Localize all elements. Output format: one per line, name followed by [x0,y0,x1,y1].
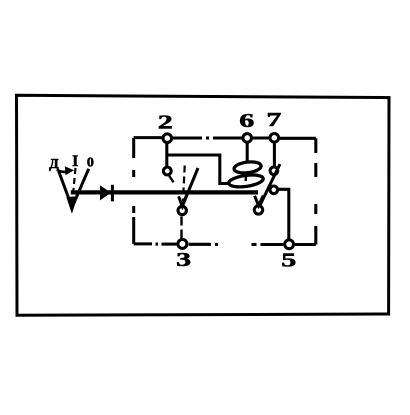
contact circle left fixed [163,167,171,175]
svg-text:6: 6 [239,110,254,132]
lever shaft stop bar [111,185,114,202]
terminal 2 [163,134,172,143]
cam center tick [245,176,247,181]
dashed travel line left switch [183,166,185,202]
contact circle right upper [270,167,278,175]
terminal 6 [243,134,252,143]
contact circle left movable [178,206,186,214]
contact circle right middle [270,186,278,194]
wire 6 to 7 [253,136,269,139]
contact circle right lower movable [254,206,262,214]
wire branch jog from node to cam [167,155,230,184]
wire 7 to right corner [280,137,316,140]
rotation arc arrow [57,170,67,172]
lever shaft [71,190,258,194]
lever position line I dashed [73,168,76,200]
arrowhead right switch [255,196,264,206]
lever position line 0 [73,169,88,205]
lever down arrowhead [68,198,76,211]
lever position line Д [59,172,71,205]
svg-text:5: 5 [281,250,296,272]
wire terminal 2 down to fixed contact [165,143,168,166]
wire chain 2 to 6 [173,136,242,139]
dashed wire movable to terminal 3 [180,217,182,239]
blade left switch [184,168,198,203]
lever shaft arrowhead [100,185,111,200]
border frame [17,95,390,315]
wire chain right vertical [314,138,317,244]
svg-text:3: 3 [176,249,191,271]
wire contact to terminal 5 [278,189,289,240]
cam lobe upper ellipse [233,160,261,174]
rotation arc arrowhead [65,166,74,175]
svg-text:7: 7 [266,109,281,131]
blade right switch [259,164,280,207]
wire terminal 6 down to cam [246,142,249,162]
terminal 7 [270,134,279,143]
contact tail tick [169,176,173,182]
wire top left segment [134,136,162,139]
svg-text:2: 2 [158,112,173,134]
arrowhead left switch [179,196,187,206]
terminal 5 [285,240,294,249]
wire chain bottom [134,242,316,246]
svg-text:I: I [72,153,78,170]
wire chain left vertical [132,138,135,244]
cam lobe lower ellipse [228,173,264,189]
wire terminal 7 down to contact [273,142,276,166]
svg-text:0: 0 [87,155,94,170]
terminal 3 [178,239,187,248]
